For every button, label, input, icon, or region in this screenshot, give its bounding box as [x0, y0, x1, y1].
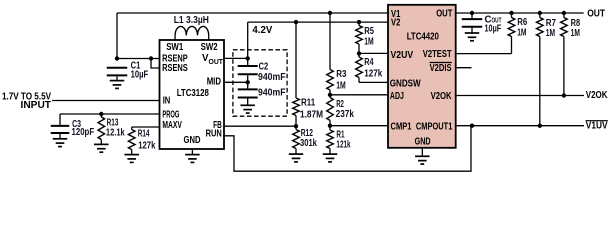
svg-text:127k: 127k [138, 140, 156, 151]
svg-text:RSENS: RSENS [162, 63, 188, 74]
svg-text:OUT: OUT [587, 8, 605, 19]
svg-text:10µF: 10µF [485, 23, 502, 34]
svg-text:R3: R3 [336, 69, 347, 80]
svg-text:1M: 1M [364, 36, 374, 47]
svg-text:SW1: SW1 [166, 42, 183, 53]
svg-text:1.87M: 1.87M [300, 110, 323, 121]
svg-text:OUT: OUT [436, 8, 452, 19]
svg-text:V2: V2 [391, 17, 400, 28]
svg-text:INPUT: INPUT [21, 100, 52, 111]
svg-text:237k: 237k [336, 109, 355, 120]
svg-text:1M: 1M [517, 28, 526, 39]
svg-text:MAXV: MAXV [162, 120, 182, 131]
svg-text:121k: 121k [336, 139, 351, 150]
svg-text:SW2: SW2 [201, 42, 218, 53]
svg-text:R6: R6 [517, 17, 527, 28]
svg-text:MID: MID [207, 77, 221, 88]
svg-text:PROG: PROG [162, 109, 179, 120]
svg-text:1M: 1M [336, 80, 346, 91]
svg-text:301k: 301k [300, 138, 317, 149]
svg-text:127k: 127k [364, 68, 383, 79]
svg-text:ADJ: ADJ [390, 91, 404, 102]
svg-text:L1 3.3µH: L1 3.3µH [174, 15, 209, 26]
svg-text:V2OK: V2OK [431, 91, 452, 102]
svg-text:1M: 1M [571, 28, 580, 39]
svg-text:120pF: 120pF [72, 127, 95, 138]
svg-text:V2TEST: V2TEST [423, 49, 452, 60]
svg-text:1M: 1M [546, 28, 555, 39]
svg-text:CMP1: CMP1 [391, 121, 412, 132]
svg-text:GND: GND [415, 137, 431, 148]
svg-text:RUN: RUN [206, 129, 222, 140]
svg-text:940mF: 940mF [258, 72, 286, 83]
svg-text:V2UV: V2UV [391, 50, 414, 61]
svg-text:V1UV: V1UV [586, 121, 608, 132]
svg-text:R4: R4 [364, 57, 374, 68]
svg-text:LTC4420: LTC4420 [407, 31, 439, 42]
svg-text:940mF: 940mF [258, 88, 286, 99]
svg-text:R14: R14 [138, 128, 150, 139]
svg-text:LTC3128: LTC3128 [177, 88, 210, 99]
svg-text:10µF: 10µF [131, 69, 149, 80]
svg-text:R11: R11 [301, 98, 316, 109]
svg-text:GND: GND [184, 135, 201, 146]
svg-text:V2OK: V2OK [586, 90, 608, 101]
svg-text:V2DIS: V2DIS [430, 63, 452, 74]
svg-text:CMPOUT1: CMPOUT1 [416, 121, 453, 132]
svg-text:GNDSW: GNDSW [390, 78, 422, 89]
svg-text:IN: IN [163, 96, 171, 107]
svg-text:12.1k: 12.1k [106, 127, 125, 138]
svg-text:4.2V: 4.2V [252, 25, 272, 36]
